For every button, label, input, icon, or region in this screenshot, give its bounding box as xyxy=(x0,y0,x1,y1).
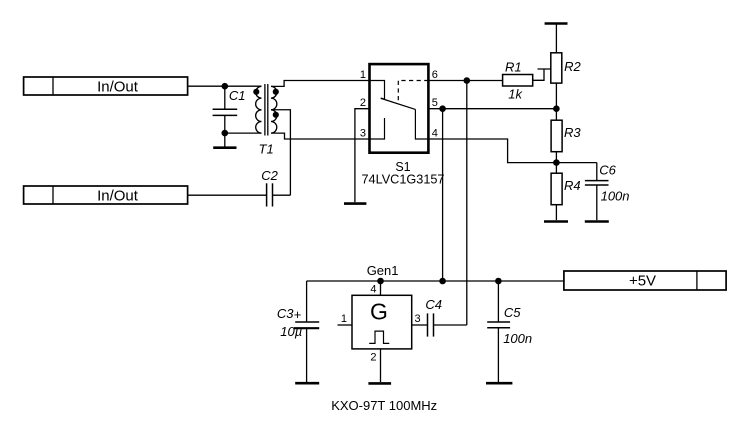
ground under Gen1 pin 2 xyxy=(368,382,391,385)
wire R3 bottom xyxy=(555,152,557,174)
wire T1 secondary bottom to S1 pin 3 xyxy=(271,133,370,139)
svg-text:10µ: 10µ xyxy=(280,324,302,339)
capacitor C2 xyxy=(261,168,278,207)
node R3/R4 junction xyxy=(553,159,560,166)
svg-text:In/Out: In/Out xyxy=(97,188,139,205)
node C1 bottom junction xyxy=(222,130,229,137)
wire R2 junction to R3 xyxy=(555,109,557,121)
svg-text:100n: 100n xyxy=(503,331,532,346)
wire C1 bottom to T1 left winding bottom xyxy=(225,132,262,134)
node pin5 junction xyxy=(439,105,446,112)
svg-text:1: 1 xyxy=(341,313,347,325)
switch U1 box S1 xyxy=(370,64,429,153)
svg-text:3: 3 xyxy=(360,128,366,140)
capacitor C6 xyxy=(585,162,630,220)
node C5 junction xyxy=(495,278,502,285)
capacitor C5 xyxy=(487,281,532,382)
wire R4 bottom to ground xyxy=(555,205,557,221)
node R2 bottom junction xyxy=(553,105,560,112)
capacitor C4 xyxy=(425,297,442,337)
ground under C3 xyxy=(295,382,319,385)
capacitor C1 xyxy=(213,86,246,133)
wire Gen1 pin 4 xyxy=(380,281,382,295)
wire T1 secondary tap down to C2 xyxy=(271,110,290,195)
svg-text:1k: 1k xyxy=(508,86,523,101)
wire vertical pin5 junction down to +5V rail xyxy=(442,109,444,281)
ground under R4 xyxy=(544,220,568,223)
svg-text:6: 6 xyxy=(432,69,438,81)
power bar +5V above R2 xyxy=(545,24,568,53)
resistor R4 xyxy=(551,173,581,205)
wire In/Out2 to C2 xyxy=(188,194,267,196)
switch S1 pole contact tick xyxy=(381,98,385,99)
wire R2 bottom xyxy=(555,83,557,109)
svg-text:1: 1 xyxy=(360,69,366,81)
svg-text:C2: C2 xyxy=(261,168,278,183)
wire Gen1 pin 1 stub xyxy=(338,324,353,326)
resistor R1 xyxy=(503,59,533,101)
connector In/Out #1 xyxy=(24,77,188,96)
svg-text:R3: R3 xyxy=(564,125,581,140)
svg-text:In/Out: In/Out xyxy=(97,79,139,96)
svg-text:100n: 100n xyxy=(601,189,630,204)
capacitor C3 electrolytic xyxy=(277,281,319,382)
node Gen1 pin4 junction xyxy=(377,278,384,285)
svg-text:C6: C6 xyxy=(599,162,616,177)
svg-text:G: G xyxy=(370,299,388,325)
node C1 top junction xyxy=(222,83,229,90)
wire junction to C6 xyxy=(556,162,596,164)
square pulse symbol xyxy=(369,331,389,343)
svg-text:2: 2 xyxy=(370,352,376,364)
svg-text:R4: R4 xyxy=(564,178,581,193)
connector In/Out #2 xyxy=(24,186,188,205)
svg-text:5: 5 xyxy=(432,97,438,109)
wire S1 pin 5 row xyxy=(428,108,556,110)
wire S1 pin 6 to R1 xyxy=(428,80,502,82)
switch S1 inner pole from pin 1 xyxy=(370,81,385,100)
svg-text:R2: R2 xyxy=(564,59,581,74)
svg-text:4: 4 xyxy=(432,128,438,140)
svg-text:Gen1: Gen1 xyxy=(367,263,399,278)
ground under S1 pin 2 xyxy=(344,202,366,205)
svg-text:+5V: +5V xyxy=(629,273,656,290)
svg-text:3: 3 xyxy=(415,313,421,325)
svg-text:KXO-97T 100MHz: KXO-97T 100MHz xyxy=(331,398,437,413)
svg-text:C4: C4 xyxy=(425,297,442,312)
wire S1 pin 2 to ground xyxy=(355,109,370,203)
svg-text:C5: C5 xyxy=(504,305,521,320)
wire vertical pin6 junction down to C4 xyxy=(466,81,468,326)
wire C2 right to tap wire xyxy=(273,194,291,196)
svg-text:R1: R1 xyxy=(505,59,522,74)
resistor R3 xyxy=(551,120,581,152)
wire Gen1 pin 3 to C4 xyxy=(412,324,428,326)
wire R1 right to R2 wiper tap xyxy=(533,69,551,80)
wire S1 pin 4 to R3/R4 junction xyxy=(428,139,556,163)
ground under C1 xyxy=(213,133,236,148)
switch S1 arm to pin 4 xyxy=(415,109,428,139)
switch S1 control dashed from pin 6 xyxy=(398,81,428,101)
switch S1 throw contact to pin 3 xyxy=(370,118,385,139)
svg-text:2: 2 xyxy=(360,97,366,109)
svg-text:+: + xyxy=(294,307,302,322)
svg-text:74LVC1G3157: 74LVC1G3157 xyxy=(361,173,444,187)
switch S1 arm diagonal xyxy=(385,100,416,110)
node pin6 junction xyxy=(464,77,471,84)
node rail junction xyxy=(439,278,446,285)
ground under C5 xyxy=(486,382,512,385)
connector +5V xyxy=(564,271,726,290)
wire T1 secondary top to S1 pin 1 xyxy=(271,81,370,87)
svg-text:C1: C1 xyxy=(229,88,246,103)
svg-text:C3: C3 xyxy=(277,306,294,321)
svg-text:T1: T1 xyxy=(259,142,274,157)
transformer T1 xyxy=(253,84,279,157)
ground under C6 xyxy=(585,220,609,223)
wire In/Out1 to T1 xyxy=(188,85,262,87)
resistor R2 xyxy=(551,53,582,83)
oscillator Gen1 box xyxy=(352,295,412,349)
svg-text:4: 4 xyxy=(370,284,376,296)
wire C4 right to pin6 vertical xyxy=(434,324,467,326)
+5V rail wire xyxy=(307,280,564,282)
wire Gen1 pin 2 to ground xyxy=(380,349,382,382)
